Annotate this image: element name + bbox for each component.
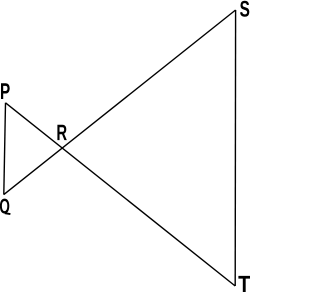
geometry diagram: triangles PQR and SRT — [0, 0, 250, 292]
node R label — [57, 125, 66, 140]
wire segment ST (right side of large triangle) — [234, 10, 236, 286]
wire segment PQ (left side of small triangle) — [4, 103, 6, 195]
node P label — [1, 83, 10, 99]
node S label — [240, 1, 249, 17]
wire segment PT (long diagonal through R) — [6, 103, 236, 286]
node Q label (tail) — [5, 212, 11, 215]
node Q label (ring) — [0, 199, 9, 214]
node T label — [238, 276, 250, 292]
wire segment QS (long diagonal through R) — [4, 10, 236, 195]
